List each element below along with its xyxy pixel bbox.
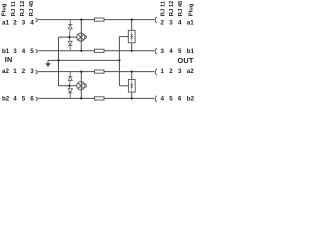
plug pin a1	[36, 18, 38, 22]
resistor R1	[95, 18, 105, 21]
wire box U1 top lead	[131, 20, 133, 31]
svg-text:3: 3	[169, 19, 173, 26]
svg-text:4: 4	[169, 48, 173, 55]
svg-text:RJ 11: RJ 11	[11, 0, 17, 16]
ground bus	[48, 59, 119, 61]
suppressor diode D3	[68, 72, 72, 86]
plug pin b2	[36, 97, 38, 101]
node a1/GDT	[80, 19, 82, 21]
wire box U1 bottom lead	[131, 43, 133, 51]
svg-text:a1: a1	[187, 19, 194, 26]
svg-text:b1: b1	[2, 48, 10, 55]
svg-text:a2: a2	[2, 68, 9, 75]
wire box U2 bottom lead	[131, 92, 133, 98]
svg-text:RJ 45: RJ 45	[29, 0, 35, 16]
resistor R4	[95, 97, 105, 100]
svg-text:4: 4	[178, 19, 182, 26]
node b1/U1	[131, 50, 133, 52]
svg-text:b1: b1	[187, 48, 195, 55]
svg-text:1: 1	[13, 68, 17, 75]
wire stub bottom cell	[59, 85, 78, 87]
svg-text:2: 2	[169, 68, 173, 75]
socket b2	[155, 96, 157, 102]
svg-text:RJ 12: RJ 12	[20, 1, 26, 16]
node a2/GDT	[80, 71, 82, 73]
svg-text:3: 3	[30, 68, 34, 75]
wire b1	[38, 50, 154, 52]
svg-text:1: 1	[161, 68, 165, 75]
node bus right	[118, 59, 120, 61]
svg-text:a2: a2	[187, 68, 194, 75]
node diodes top	[68, 36, 70, 38]
svg-text:4: 4	[30, 19, 34, 26]
svg-text:Plug: Plug	[188, 3, 194, 16]
svg-text:RJ 11: RJ 11	[160, 0, 166, 16]
svg-text:4: 4	[161, 96, 165, 103]
svg-text:IN: IN	[5, 55, 13, 64]
svg-text:OUT: OUT	[178, 56, 194, 65]
svg-text:5: 5	[30, 48, 34, 55]
socket a2	[155, 69, 157, 75]
suppressor diode D4	[68, 86, 73, 98]
svg-text:3: 3	[178, 68, 182, 75]
svg-text:4: 4	[13, 96, 17, 103]
svg-text:RJ 12: RJ 12	[169, 1, 175, 16]
suppressor box U1	[128, 30, 135, 43]
svg-text:Plug: Plug	[2, 3, 8, 16]
suppressor diode D1	[68, 20, 72, 37]
svg-text:3: 3	[161, 48, 165, 55]
wire right ground vertical	[118, 37, 120, 86]
wire b2	[38, 97, 154, 99]
node a2/U2	[131, 71, 133, 73]
wire GDT bus top	[80, 20, 82, 51]
svg-text:5: 5	[169, 96, 173, 103]
ground arrow	[45, 60, 51, 67]
resistor R2	[95, 49, 105, 52]
svg-text:6: 6	[178, 96, 182, 103]
gas discharge tube F1	[77, 33, 87, 41]
svg-text:RJ 45: RJ 45	[178, 0, 184, 16]
socket a1	[155, 17, 157, 23]
resistor R3	[95, 70, 105, 73]
wire stub to box U1	[119, 36, 128, 38]
wire stub top cell	[59, 36, 78, 38]
plug pin b1	[36, 49, 38, 53]
socket b1	[155, 48, 157, 54]
svg-text:2: 2	[13, 19, 17, 26]
node a1/U1	[131, 19, 133, 21]
svg-text:5: 5	[22, 96, 26, 103]
svg-text:3: 3	[22, 19, 26, 26]
svg-text:b2: b2	[187, 96, 195, 103]
svg-text:a1: a1	[2, 19, 9, 26]
node bus left	[57, 59, 59, 61]
wire a2	[38, 71, 154, 73]
node b1/GDT	[80, 50, 82, 52]
node diodes bottom	[68, 85, 70, 87]
wire stub to box U2	[119, 85, 128, 87]
wire GDT bus bottom	[80, 72, 82, 99]
wire a1	[38, 19, 154, 21]
wire left vertical	[58, 37, 60, 86]
suppressor diode D2	[68, 37, 72, 50]
plug pin a2	[36, 70, 38, 74]
node b2/U2	[131, 97, 133, 99]
gas discharge tube F2	[77, 82, 87, 90]
svg-text:2: 2	[161, 19, 165, 26]
svg-text:4: 4	[22, 48, 26, 55]
svg-text:3: 3	[13, 48, 17, 55]
svg-text:2: 2	[22, 68, 26, 75]
svg-text:b2: b2	[2, 96, 10, 103]
svg-text:5: 5	[178, 48, 182, 55]
node b2/GDT	[80, 97, 82, 99]
svg-text:6: 6	[30, 96, 34, 103]
wire box U2 top lead	[131, 72, 133, 80]
junction dots	[57, 19, 132, 100]
suppressor box U2	[128, 79, 135, 92]
